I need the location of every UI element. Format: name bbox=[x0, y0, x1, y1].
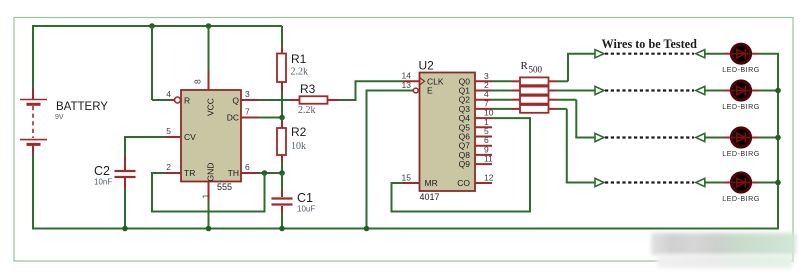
555 pin number 8 bbox=[193, 79, 203, 84]
wire: LED row 4 to right rail bbox=[752, 182, 779, 184]
wire: LED row 3 to right rail bbox=[752, 137, 779, 139]
svg-text:R3: R3 bbox=[300, 82, 316, 96]
wire under test row 3 (dashed) bbox=[605, 136, 694, 138]
wire: CV pin 5 to C2 bbox=[125, 136, 181, 170]
resistor R500 element 2 bbox=[492, 87, 557, 95]
wire: node to R2 top bbox=[281, 118, 283, 129]
svg-text:E: E bbox=[427, 86, 433, 96]
node: junction TH / R2 / C1 bbox=[279, 170, 285, 176]
wire: R2 bottom to TH node bbox=[281, 155, 283, 174]
test probe arrow left row 3 bbox=[595, 133, 604, 141]
resistor R1 2.2k bbox=[277, 52, 308, 82]
svg-text:12: 12 bbox=[484, 172, 494, 182]
U2 pin label Q2 bbox=[459, 95, 471, 105]
wire: E pin 13 to ground rail bbox=[367, 90, 414, 229]
LED D4 LED-BIRG bbox=[722, 173, 760, 203]
svg-text:R: R bbox=[521, 60, 529, 72]
svg-text:CV: CV bbox=[184, 132, 196, 142]
capacitor C1 10uF bbox=[272, 191, 316, 214]
U2 pin 2 Q1 stub bbox=[475, 80, 492, 91]
U2 pin label Q7 bbox=[459, 141, 471, 151]
resistor R2 10k bbox=[277, 125, 307, 155]
U2 pin label Q0 bbox=[459, 76, 471, 86]
U2 pin label Q3 bbox=[459, 104, 471, 114]
svg-text:3: 3 bbox=[245, 89, 250, 99]
node: junction LED row 4 / right rail bbox=[775, 180, 781, 186]
U2 pin label Q9 bbox=[459, 159, 471, 169]
svg-text:9V: 9V bbox=[55, 114, 64, 121]
svg-text:LED-BIRG: LED-BIRG bbox=[722, 194, 760, 203]
svg-text:4017: 4017 bbox=[420, 192, 440, 202]
node: junction DC / R1 / R2 bbox=[279, 115, 285, 121]
node: junction E wire / ground rail bbox=[364, 226, 370, 232]
U2 pin 10 Q4 stub bbox=[475, 108, 494, 119]
svg-text:5: 5 bbox=[166, 126, 171, 136]
svg-text:TH: TH bbox=[228, 168, 239, 178]
wire: C1 top from TH node bbox=[281, 173, 283, 197]
U2 pin 4 Q2 stub bbox=[475, 89, 492, 100]
node: junction top rail / reset drop bbox=[149, 23, 155, 29]
svg-text:1: 1 bbox=[200, 194, 210, 199]
wire: bottom ground rail bbox=[32, 228, 779, 230]
555 pin number 1 bbox=[200, 194, 210, 199]
555 pin number 5 bbox=[166, 126, 171, 136]
wire: TR pin 2 loop to TH bbox=[151, 172, 266, 213]
test probe arrow right row 1 bbox=[696, 50, 705, 58]
svg-text:7: 7 bbox=[245, 107, 250, 117]
U2 pin 3 Q0 stub bbox=[475, 71, 492, 82]
test probe arrow left row 1 bbox=[595, 50, 604, 58]
svg-text:C2: C2 bbox=[94, 164, 110, 178]
U2 pin 7 Q3 stub bbox=[475, 98, 492, 109]
wire under test row 4 (dashed) bbox=[605, 181, 694, 183]
wire: R3 to 4017 CLK bbox=[328, 81, 403, 101]
svg-text:11: 11 bbox=[484, 154, 493, 164]
U2 pin label Q5 bbox=[459, 122, 471, 132]
svg-text:Q: Q bbox=[232, 96, 239, 106]
wire: DC pin 7 to R1/R2 node bbox=[241, 117, 283, 119]
svg-text:10nF: 10nF bbox=[94, 178, 112, 187]
wire: left rail upper (battery +) bbox=[32, 25, 34, 88]
svg-text:R2: R2 bbox=[291, 125, 307, 139]
svg-text:TR: TR bbox=[184, 168, 195, 178]
wire: right LED return rail bbox=[777, 54, 779, 230]
wire: Q pin 3 to R3 bbox=[241, 99, 300, 101]
test probe arrow left row 2 bbox=[595, 86, 604, 94]
svg-text:6: 6 bbox=[245, 162, 250, 172]
555 pin number 3 bbox=[245, 89, 250, 99]
node: junction GND / ground rail bbox=[206, 226, 212, 232]
svg-text:GND: GND bbox=[206, 163, 216, 182]
LED D1 LED-BIRG bbox=[722, 44, 760, 74]
resistor network R500 label bbox=[521, 60, 543, 75]
U2 pin 14 CLK stub bbox=[402, 71, 420, 82]
wire: R500 out 2 to test point bbox=[557, 90, 596, 92]
U2 pin 13 E stub bbox=[402, 80, 413, 91]
U2 pin label Q1 bbox=[459, 86, 471, 96]
svg-text:U2: U2 bbox=[419, 59, 435, 73]
svg-text:R1: R1 bbox=[291, 52, 307, 66]
label: Wires to be Tested bbox=[602, 37, 698, 51]
svg-text:2.2k: 2.2k bbox=[298, 105, 316, 116]
555 pin number 2 bbox=[166, 162, 171, 172]
wire: test point to LED row 2 bbox=[705, 90, 731, 92]
wire: C1 bottom to ground rail bbox=[281, 206, 283, 229]
svg-text:14: 14 bbox=[402, 71, 412, 81]
svg-text:LED-BIRG: LED-BIRG bbox=[722, 102, 760, 111]
U2 pin 11 Q9 stub bbox=[475, 154, 493, 165]
svg-text:8: 8 bbox=[193, 79, 203, 84]
node: junction top rail / VCC drop bbox=[206, 23, 212, 29]
resistor R500 element 4 bbox=[492, 105, 557, 113]
battery BT1 9V bbox=[20, 88, 108, 153]
svg-text:LED-BIRG: LED-BIRG bbox=[722, 149, 760, 158]
test probe arrow right row 4 bbox=[696, 178, 705, 186]
wire: test point to LED row 4 bbox=[705, 182, 731, 184]
node: junction TH / TR loop bbox=[262, 170, 268, 176]
svg-text:10uF: 10uF bbox=[297, 205, 315, 214]
555 pin number 4 bbox=[166, 89, 171, 99]
node: junction C1 / ground rail bbox=[279, 226, 285, 232]
test probe arrow left row 4 bbox=[595, 178, 604, 186]
U2 pin label Q8 bbox=[459, 150, 471, 160]
svg-text:DC: DC bbox=[227, 113, 239, 123]
U2 pin 9 Q8 stub bbox=[475, 144, 492, 155]
LED D2 LED-BIRG bbox=[722, 81, 760, 111]
svg-text:2: 2 bbox=[166, 162, 171, 172]
U2 pin label Q6 bbox=[459, 132, 471, 142]
counter U2 4017 body bbox=[413, 59, 475, 203]
svg-text:500: 500 bbox=[529, 65, 543, 75]
svg-text:MR: MR bbox=[425, 178, 438, 188]
wire: LED row 1 to right rail bbox=[752, 53, 779, 55]
U2 pin 15 MR stub bbox=[402, 172, 420, 183]
U2 pin 5 Q6 stub bbox=[475, 126, 492, 137]
U2 pin 12 CO stub bbox=[475, 172, 494, 183]
node: junction LED row 2 / right rail bbox=[775, 88, 781, 94]
wire: TH pin 6 bbox=[241, 172, 282, 174]
wire: R1 bottom to DC node bbox=[281, 82, 283, 118]
wire: C2 bottom to ground rail bbox=[124, 178, 126, 229]
svg-text:13: 13 bbox=[402, 80, 412, 90]
wire: R500 out 1 to test point bbox=[557, 54, 596, 82]
svg-text:VCC: VCC bbox=[206, 98, 216, 116]
svg-text:C1: C1 bbox=[297, 191, 313, 205]
svg-text:10k: 10k bbox=[291, 141, 306, 152]
U2 pin label Q4 bbox=[459, 113, 471, 123]
wire: test point to LED row 1 bbox=[705, 53, 731, 55]
wire: top rail corner down to R1 bbox=[281, 26, 283, 54]
wire: VCC pin 8 drop bbox=[208, 26, 210, 90]
wire: left rail lower (battery -) bbox=[32, 153, 34, 230]
wire: R500 out 4 to test point bbox=[557, 109, 596, 183]
test probe arrow right row 3 bbox=[696, 133, 705, 141]
svg-text:555: 555 bbox=[217, 182, 232, 192]
resistor R3 2.2k bbox=[298, 82, 328, 116]
svg-text:2.2k: 2.2k bbox=[291, 67, 309, 78]
svg-text:15: 15 bbox=[402, 172, 412, 182]
wire: R500 out 3 to test point bbox=[557, 100, 596, 138]
watermark blur bbox=[651, 233, 796, 255]
capacitor C2 10nF bbox=[94, 164, 136, 187]
wire: LED row 2 to right rail bbox=[752, 90, 779, 92]
wire under test row 2 (dashed) bbox=[605, 89, 694, 91]
resistor R500 element 3 bbox=[492, 96, 557, 104]
555 pin number 7 bbox=[245, 107, 250, 117]
wire: GND pin 1 to ground rail bbox=[208, 182, 210, 229]
svg-text:4: 4 bbox=[166, 89, 171, 99]
wire: test point to LED row 3 bbox=[705, 137, 731, 139]
op-amp timer U1 555 body bbox=[175, 90, 242, 192]
resistor R500 element 1 bbox=[492, 77, 557, 85]
svg-text:Q9: Q9 bbox=[459, 159, 471, 169]
node: junction LED row 3 / right rail bbox=[775, 135, 781, 141]
LED D3 LED-BIRG bbox=[722, 128, 760, 158]
test probe arrow right row 2 bbox=[696, 86, 705, 94]
svg-text:LED-BIRG: LED-BIRG bbox=[722, 65, 760, 74]
svg-text:CO: CO bbox=[457, 178, 470, 188]
node: junction C2 / ground rail bbox=[122, 226, 128, 232]
U2 pin 1 Q5 stub bbox=[475, 117, 492, 128]
svg-text:R: R bbox=[184, 96, 190, 106]
wire: reset pin 4 drop bbox=[152, 26, 175, 100]
svg-text:BATTERY: BATTERY bbox=[56, 101, 108, 113]
wire: top supply rail bbox=[33, 25, 282, 27]
wire under test row 1 (dashed) bbox=[605, 53, 694, 55]
svg-text:Wires to be Tested: Wires to be Tested bbox=[602, 37, 698, 51]
wire: Q4 pin 10 to MR pin 15 reset loop bbox=[391, 117, 532, 212]
U2 pin 6 Q7 stub bbox=[475, 135, 492, 146]
555 pin number 6 bbox=[245, 162, 250, 172]
